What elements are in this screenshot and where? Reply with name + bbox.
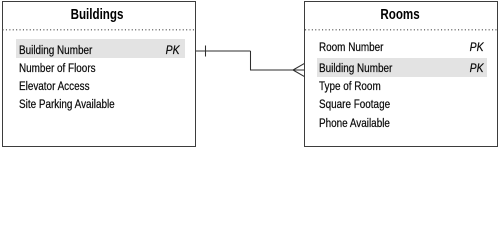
attribute Phone Available <box>319 117 390 129</box>
attribute Building Number <box>19 44 92 56</box>
attribute Site Parking Available <box>19 98 115 110</box>
title Buildings <box>20 8 174 22</box>
wire vertical jog <box>250 51 252 70</box>
wire horizontal to Rooms <box>250 69 294 71</box>
attribute Square Footage <box>319 98 390 110</box>
wire horizontal from Buildings <box>196 50 251 52</box>
one cardinality tick <box>205 46 207 57</box>
attribute Type of Room <box>319 80 381 92</box>
key label PK (Building Number) <box>470 62 484 74</box>
key label PK (Room Number) <box>470 41 484 53</box>
dotted separator Rooms <box>305 29 497 31</box>
crow's foot (many) at Rooms <box>293 64 304 77</box>
attribute Number of Floors <box>19 62 96 74</box>
entity Buildings <box>2 1 196 147</box>
PK row highlight band <box>16 39 185 58</box>
attribute Elevator Access <box>19 80 90 92</box>
title Rooms <box>323 8 477 22</box>
dotted separator Buildings <box>3 29 196 31</box>
relationship connector <box>0 0 500 149</box>
key label PK <box>166 44 180 56</box>
attribute Room Number <box>319 41 383 53</box>
FK row highlight band <box>317 58 487 77</box>
attribute Building Number <box>319 62 392 74</box>
entity Rooms <box>304 1 498 147</box>
